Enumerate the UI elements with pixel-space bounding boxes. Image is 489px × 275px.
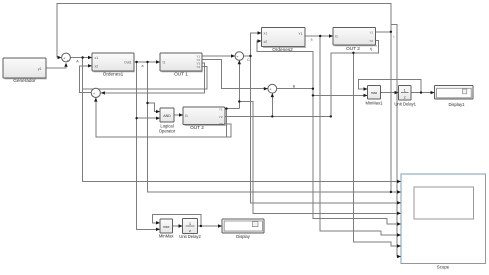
junction ord2 Y1 bbox=[319, 35, 321, 37]
wire generator to sum1 bottom bbox=[46, 65, 66, 69]
wire UnitDelay1 loop to MinMax1 in1 bbox=[359, 80, 422, 93]
svg-text:tj: tj bbox=[370, 47, 372, 51]
arrow into sum1 left bbox=[58, 56, 62, 59]
wire OUT1 y1 to sum3 bbox=[202, 55, 235, 57]
wire Y2wrap junction down to scope P7 bbox=[353, 53, 401, 246]
block Generator bbox=[3, 58, 47, 83]
svg-text:t: t bbox=[394, 35, 395, 39]
node A bbox=[81, 56, 83, 58]
arrow into sum1 bottom bbox=[64, 63, 67, 67]
wire Y1 ord2 junction down to scope P7 bbox=[320, 36, 401, 235]
ARROWHEADS bbox=[58, 31, 435, 258]
junction Y2wrap 330.8 bbox=[330, 115, 332, 117]
wire MinMax1 out to UnitDelay1 bbox=[381, 92, 399, 94]
svg-text:y1: y1 bbox=[38, 67, 42, 71]
svg-text:x1: x1 bbox=[95, 56, 99, 60]
arrow into MinMax in2 bbox=[156, 228, 160, 231]
svg-text:Y1: Y1 bbox=[219, 107, 223, 111]
junction UD1 loop bbox=[420, 91, 422, 93]
wire Ordenes1 out to OUT1 in bbox=[134, 61, 160, 63]
wire top feedback Y1 of OUT2 to sum1 bbox=[57, 4, 391, 58]
junction Y2wrap P7 bbox=[352, 52, 354, 54]
arrow into UnitDelay1 bbox=[395, 91, 399, 94]
arrow into MinMax1 in1 bbox=[364, 87, 368, 90]
wire sum3 riser junction to scope P3 bbox=[251, 56, 402, 203]
svg-text:max: max bbox=[371, 91, 378, 95]
svg-text:Y1: Y1 bbox=[369, 30, 373, 34]
block Scope bbox=[401, 174, 486, 269]
wire OUT2mid Y3 wrap to sum2 bottom bbox=[96, 98, 231, 138]
sum2 bbox=[91, 88, 100, 98]
arrow into UnitDelay2 bbox=[179, 224, 183, 227]
arrow into AND in1 bbox=[156, 110, 160, 113]
block OUT2 mid bbox=[183, 107, 226, 130]
svg-text:x1: x1 bbox=[264, 32, 268, 36]
junction Y1 down at scope bbox=[390, 191, 392, 193]
svg-text:MinMax: MinMax bbox=[159, 234, 175, 239]
wire sum3 bottom feed riser bbox=[238, 60, 240, 108]
wire sum4 bottom riser bbox=[271, 93, 273, 116]
arrow into MinMax1 in2 bbox=[364, 94, 368, 97]
svg-text:Unit Delay1: Unit Delay1 bbox=[394, 102, 416, 107]
block OUT2 top bbox=[333, 28, 377, 52]
wire B junction up x2 feedback bbox=[257, 41, 313, 89]
arrow into sum4 bottom bbox=[271, 93, 274, 97]
svg-text:I1: I1 bbox=[185, 114, 188, 118]
junction Y2 MinMax1 bbox=[312, 94, 314, 96]
svg-text:z: z bbox=[189, 228, 191, 233]
block AND logical operator bbox=[159, 108, 176, 134]
wire OUT1 y4 wrap left bbox=[83, 66, 207, 89]
arrow into Ordenes1 x1 bbox=[88, 56, 92, 59]
wire B junction down to scope P5 bbox=[313, 89, 401, 224]
wire OUT1 y3 to sum2 right bbox=[101, 63, 205, 93]
wire OUT2mid Y2 to sum4 bottom bbox=[225, 115, 331, 117]
arrow into OUT2mid bbox=[179, 113, 183, 116]
svg-text:Ordenes1: Ordenes1 bbox=[103, 72, 124, 77]
svg-text:I1: I1 bbox=[163, 61, 166, 65]
wire node a V1 to MinMax in2 bbox=[137, 62, 160, 229]
junction Y1mid bbox=[238, 100, 240, 102]
arrow into sum3 left bbox=[231, 54, 235, 57]
wire AND in1 jog bbox=[148, 103, 161, 112]
arrow into AND in2 bbox=[156, 117, 160, 120]
wire Ordenes2 Y1 to OUT2 in bbox=[305, 35, 333, 37]
block Display bottom bbox=[222, 219, 264, 239]
svg-text:z: z bbox=[404, 94, 406, 99]
wire AND out to OUT2 mid bbox=[174, 114, 183, 116]
wire Y1mid branch to scope P4 bbox=[239, 102, 401, 214]
arrow into Display1 bbox=[431, 91, 435, 94]
node a j1 bbox=[135, 61, 137, 63]
node a j2 bbox=[146, 61, 148, 63]
junction V1 AND bbox=[135, 117, 137, 119]
sum4 bbox=[268, 84, 277, 94]
svg-text:Scope: Scope bbox=[437, 264, 450, 269]
block Ordenes1 bbox=[92, 53, 135, 77]
wire sum3 out to Ordenes2 x1 bbox=[244, 33, 262, 56]
arrow into sum2 right bbox=[101, 91, 105, 94]
wire OUT2 Y1 out bbox=[376, 31, 391, 33]
svg-text:OUT 2: OUT 2 bbox=[190, 125, 204, 130]
svg-text:x2: x2 bbox=[264, 40, 268, 44]
wire Y1 down branch bbox=[390, 32, 392, 192]
wire sum1 out to Ordenes1 x1 bbox=[70, 57, 92, 59]
svg-text:Ordenes2: Ordenes2 bbox=[272, 47, 293, 52]
wire OUT1 y2 to sum4 left bbox=[202, 59, 268, 88]
svg-text:C: C bbox=[247, 58, 250, 62]
block MinMax1 bbox=[366, 86, 384, 106]
junction sum4 riser on Y2 line bbox=[271, 115, 273, 117]
wire Y2 branch to MinMax1 in2 bbox=[313, 94, 368, 96]
junction Y1mid branch bbox=[225, 107, 227, 109]
junction B bbox=[312, 88, 314, 90]
block Display1 bbox=[435, 86, 474, 107]
junction OUT2 Y1 bbox=[390, 31, 392, 33]
sum1 bbox=[62, 53, 71, 63]
svg-text:a: a bbox=[142, 64, 144, 68]
svg-text:Y2: Y2 bbox=[369, 39, 373, 43]
arrow into sum4 left bbox=[264, 87, 268, 90]
block UnitDelay2 bbox=[179, 219, 201, 239]
wire Y1 branch to scope P8 bbox=[391, 24, 397, 256]
svg-text:Display1: Display1 bbox=[448, 102, 465, 107]
arrow into sum2 bottom bbox=[94, 98, 97, 102]
block UnitDelay1 bbox=[394, 86, 416, 107]
block Ordenes2 bbox=[262, 28, 307, 52]
svg-text:I1: I1 bbox=[335, 35, 338, 39]
wire sum4 out to B junction bbox=[277, 88, 313, 90]
svg-text:OUT 2: OUT 2 bbox=[346, 46, 360, 51]
arrow into sum3 bottom bbox=[238, 60, 241, 64]
arrow into Ordenes2 x1 bbox=[258, 31, 262, 34]
wire node a V2 to scope P2 bbox=[148, 62, 402, 192]
wire UnitDelay1 out to Display1 bbox=[411, 92, 435, 94]
arrow into Ordenes2 x2 bbox=[258, 39, 262, 42]
arrow into MinMax in1 bbox=[156, 221, 160, 224]
junction AND in1 on V2 bbox=[146, 102, 148, 104]
wire Y1mid short branch down to Y3 wrap bbox=[226, 109, 228, 138]
arrow into OUT2 in bbox=[329, 34, 333, 37]
wire OUT2mid Y1 to riser bbox=[225, 108, 240, 110]
sum3 bbox=[235, 52, 244, 62]
svg-text:AND: AND bbox=[163, 114, 171, 118]
wire node A vertical to scope P1 bbox=[83, 58, 401, 182]
wire P8 into scope bbox=[397, 256, 401, 258]
wire UnitDelay2 out to Display bbox=[198, 225, 223, 227]
wire OUT2 Y2 wrap down bbox=[331, 40, 379, 116]
arrow into Ordenes1 x2 bbox=[88, 64, 92, 67]
svg-text:Y2: Y2 bbox=[219, 115, 223, 119]
svg-text:Generador: Generador bbox=[13, 78, 36, 83]
svg-text:max: max bbox=[163, 225, 170, 229]
arrow into OUT1 in bbox=[156, 60, 160, 63]
svg-text:a: a bbox=[311, 38, 313, 42]
arrows into scope ports bbox=[397, 180, 401, 183]
junction UD2 loop bbox=[200, 225, 202, 227]
junction sum3 out bbox=[249, 55, 251, 57]
wire V1 branch to AND in2 bbox=[137, 117, 160, 119]
block OUT1 bbox=[160, 53, 203, 77]
svg-text:Out1: Out1 bbox=[124, 61, 131, 65]
block MinMax bottom bbox=[159, 219, 175, 239]
svg-text:OUT 1: OUT 1 bbox=[174, 72, 188, 77]
svg-text:MinMax1: MinMax1 bbox=[366, 100, 384, 105]
svg-text:Operator: Operator bbox=[159, 129, 176, 134]
svg-text:Y4: Y4 bbox=[196, 65, 200, 69]
svg-text:Unit Delay2: Unit Delay2 bbox=[179, 234, 201, 239]
arrow into Display bbox=[218, 224, 222, 227]
wire sum2 out riser to Ordenes1 x2 bbox=[80, 66, 92, 93]
wire UnitDelay2 loop to MinMax in1 bbox=[153, 214, 201, 226]
svg-text:x2: x2 bbox=[95, 64, 99, 68]
wire MinMax out to UnitDelay2 bbox=[173, 225, 183, 227]
svg-text:Y1: Y1 bbox=[298, 32, 302, 36]
svg-text:Y3: Y3 bbox=[219, 122, 223, 126]
svg-text:Display: Display bbox=[236, 234, 251, 239]
